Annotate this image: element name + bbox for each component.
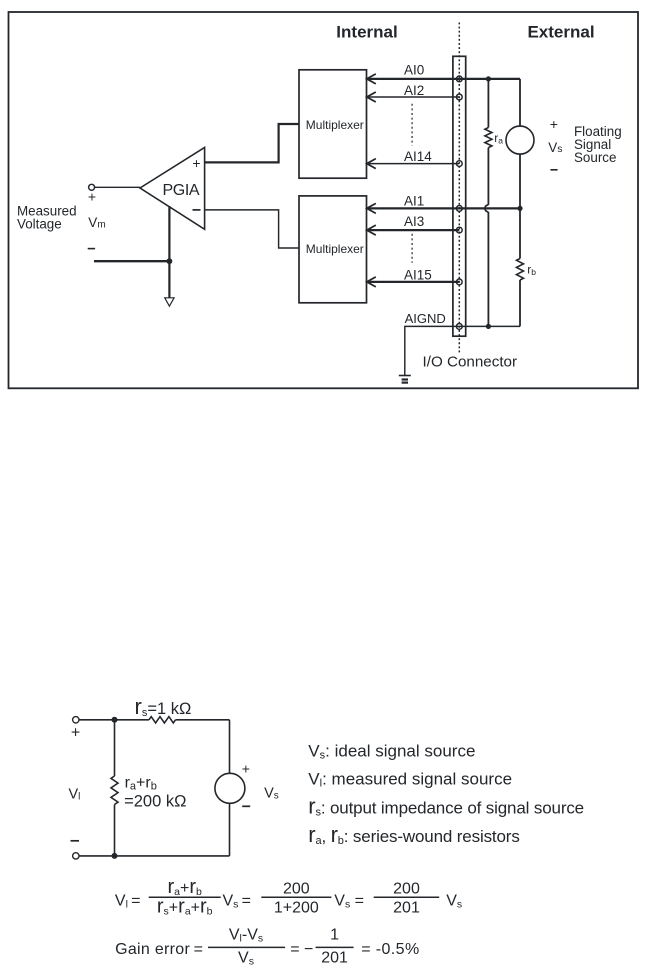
label minus bbox=[88, 248, 95, 250]
label Floating Signal Source bbox=[574, 124, 622, 165]
svg-text:200: 200 bbox=[283, 881, 310, 898]
connector pin AI15 bbox=[456, 279, 462, 285]
ground arrow (PGIA reference) bbox=[165, 298, 174, 306]
node AI1 / Vs junction bbox=[517, 206, 522, 211]
op-amp PGIA bbox=[140, 147, 205, 229]
svg-text:AIGND: AIGND bbox=[405, 311, 446, 326]
wire AIGND bbox=[405, 326, 520, 375]
wire AI2 bbox=[367, 96, 460, 98]
svg-text:= -0.5%: = -0.5% bbox=[361, 941, 419, 958]
wire AI3 bbox=[367, 229, 460, 231]
svg-text:PGIA: PGIA bbox=[163, 182, 200, 199]
resistor ra branch wire bbox=[485, 79, 492, 327]
wire AI0 bbox=[367, 78, 520, 80]
wire AI14 bbox=[367, 163, 460, 165]
equation 2 fraction 1/201 bbox=[316, 927, 354, 965]
svg-text:AI1: AI1 bbox=[404, 194, 424, 209]
wire PGIA output bbox=[95, 186, 140, 188]
svg-text:AI2: AI2 bbox=[404, 83, 424, 98]
wire PGIA- to multiplexer U2 bbox=[205, 210, 299, 248]
node junction PGIA ref bbox=[167, 258, 173, 264]
multiplexer U2 bbox=[299, 196, 367, 303]
node bottom junction bbox=[112, 853, 118, 859]
svg-text:+: + bbox=[242, 761, 250, 777]
arrowhead AI14 bbox=[367, 159, 376, 169]
svg-text:I/O Connector: I/O Connector bbox=[423, 354, 518, 371]
source Vs circle bbox=[506, 126, 534, 154]
connector pin AI2 bbox=[456, 94, 462, 100]
source Vs (bottom) bbox=[215, 773, 245, 803]
wire AI1 bbox=[367, 207, 520, 209]
arrowhead AI2 bbox=[367, 92, 376, 102]
source Vs branch wire bbox=[517, 79, 524, 327]
svg-text:+: + bbox=[192, 155, 200, 171]
arrowhead AI0 bbox=[367, 74, 376, 84]
dotted continuation AI2..AI14 bbox=[411, 104, 413, 146]
wire AI15 bbox=[367, 281, 460, 283]
label Vs(bottom) minus bbox=[242, 805, 250, 807]
ground AIGND bbox=[399, 376, 411, 383]
wire Vm- (bottom) bbox=[94, 260, 169, 262]
svg-text:201: 201 bbox=[321, 949, 348, 965]
wire right vertical bbox=[229, 720, 231, 856]
I/O connector body bbox=[453, 56, 466, 336]
connector pin AI3 bbox=[456, 227, 462, 233]
svg-text:1: 1 bbox=[330, 927, 339, 944]
figure frame bbox=[9, 12, 639, 388]
svg-text:Multiplexer: Multiplexer bbox=[306, 118, 364, 132]
equation 1 fraction 200/201 bbox=[374, 881, 440, 917]
svg-text:= −: = − bbox=[290, 941, 313, 958]
wire PGIA+ to multiplexer U1 bbox=[205, 124, 299, 162]
terminal Vi- bbox=[73, 853, 79, 859]
internal/external boundary dotted line bbox=[458, 23, 460, 354]
svg-text:200: 200 bbox=[393, 881, 420, 898]
svg-text:+: + bbox=[550, 116, 558, 132]
wire top with resistor rs bbox=[79, 717, 230, 723]
label Vi minus bbox=[71, 840, 80, 842]
multiplexer U1 bbox=[299, 70, 367, 178]
svg-text:Vs: ideal signal source: Vs: ideal signal source bbox=[308, 742, 475, 762]
svg-text:Vs: Vs bbox=[548, 140, 562, 155]
svg-text:AI0: AI0 bbox=[404, 63, 424, 78]
node AIGND / ra junction bbox=[486, 324, 491, 329]
svg-text:Internal: Internal bbox=[336, 23, 397, 42]
svg-text:Vl: measured signal source: Vl: measured signal source bbox=[308, 769, 512, 789]
terminal Vm+ bbox=[89, 184, 95, 190]
label Vs minus bbox=[550, 169, 557, 171]
node AI0 / ra junction bbox=[486, 76, 491, 81]
terminal Vi+ bbox=[73, 717, 79, 723]
node top junction bbox=[112, 717, 118, 723]
svg-text:Gain error =: Gain error = bbox=[115, 941, 203, 958]
arrowhead AI1 bbox=[367, 203, 376, 213]
equation 1 fraction (ra+rb)/(rs+ra+rb) bbox=[149, 876, 221, 918]
svg-text:AI14: AI14 bbox=[404, 149, 432, 164]
svg-text:AI15: AI15 bbox=[404, 268, 432, 283]
wire bottom bbox=[79, 855, 230, 857]
equation 2 fraction (Vi-Vs)/Vs bbox=[208, 927, 285, 965]
svg-text:Source: Source bbox=[574, 150, 616, 165]
arrowhead AI15 bbox=[367, 277, 376, 287]
equation 1 fraction 200/(1+200) bbox=[261, 881, 331, 917]
svg-text:201: 201 bbox=[393, 900, 420, 917]
connector pin AI0 bbox=[456, 76, 462, 82]
wire left with resistor ra+rb bbox=[111, 720, 118, 856]
label Measured Voltage bbox=[17, 203, 77, 231]
connector pin AI14 bbox=[456, 161, 462, 167]
connector pin AIGND bbox=[456, 324, 462, 330]
svg-text:Vl =: Vl = bbox=[115, 892, 141, 910]
arrowhead AI3 bbox=[367, 225, 376, 235]
dotted continuation AI3..AI15 bbox=[411, 234, 413, 263]
svg-text:Multiplexer: Multiplexer bbox=[306, 242, 364, 256]
svg-text:+: + bbox=[71, 724, 80, 741]
svg-text:External: External bbox=[527, 23, 594, 42]
wire PGIA ref vertical bbox=[168, 206, 170, 298]
svg-text:+: + bbox=[88, 189, 96, 205]
svg-text:Voltage: Voltage bbox=[17, 217, 62, 232]
svg-text:AI3: AI3 bbox=[404, 214, 424, 229]
connector pin AI1 bbox=[456, 206, 462, 212]
svg-text:1+200: 1+200 bbox=[274, 900, 319, 917]
svg-text:=200 kΩ: =200 kΩ bbox=[124, 793, 186, 811]
